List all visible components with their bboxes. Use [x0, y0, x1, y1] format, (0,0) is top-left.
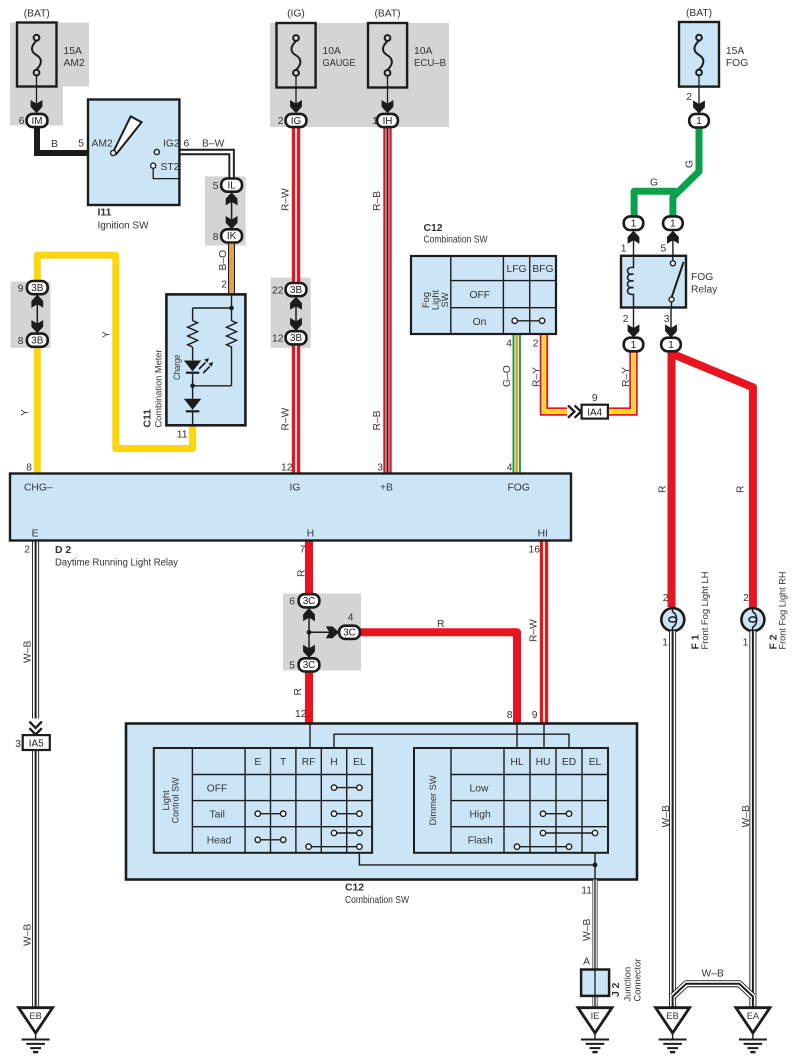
- wire W-B (IA5 to ground EB): [32, 750, 39, 1008]
- wire Y (combination meter pin 11 to 3B): [37, 255, 192, 448]
- svg-text:W–B: W–B: [741, 805, 752, 827]
- svg-text:Fog: Fog: [421, 292, 431, 308]
- svg-text:FOG: FOG: [508, 483, 530, 494]
- svg-text:9: 9: [592, 393, 598, 404]
- combination meter C11: [143, 294, 246, 427]
- svg-text:AM2: AM2: [64, 58, 85, 69]
- svg-text:8: 8: [26, 463, 32, 474]
- svg-text:ED: ED: [562, 757, 576, 768]
- ground EA: [736, 1008, 770, 1052]
- wire R-Y (fog light SW pin 2 to IA4): [544, 334, 567, 412]
- svg-text:Relay: Relay: [691, 285, 718, 296]
- LED charge indicator: [184, 361, 201, 372]
- svg-text:R–Y: R–Y: [532, 367, 543, 387]
- dimmer SW table: [414, 748, 608, 853]
- svg-text:1: 1: [631, 219, 637, 230]
- fuse 10A GAUGE: [277, 9, 356, 106]
- svg-text:FOG: FOG: [726, 58, 748, 69]
- svg-text:5: 5: [78, 139, 84, 150]
- svg-text:H: H: [330, 757, 337, 768]
- svg-text:Low: Low: [470, 783, 489, 794]
- connector 1 (relay pin 3): [661, 338, 681, 352]
- svg-text:Combination SW: Combination SW: [424, 235, 488, 246]
- wire R (3C to C12 pin 12): [305, 671, 313, 723]
- svg-text:10A: 10A: [414, 46, 432, 57]
- LC contacts Head row E-T: [260, 839, 281, 841]
- svg-text:H: H: [307, 529, 314, 540]
- fuse 15A AM2: [17, 9, 85, 106]
- wire B (thick black from IM to ignition SW): [37, 127, 89, 154]
- internal wire pin12 to RF: [309, 724, 311, 749]
- fuse block background gray (GAUGE / ECU-B): [270, 23, 449, 127]
- svg-text:1: 1: [662, 638, 668, 649]
- wire Y (3B to D2 pin 8): [34, 347, 41, 475]
- FOG relay: [621, 256, 718, 308]
- connector 2 IG: [278, 100, 307, 127]
- connector 1 IH: [372, 100, 398, 127]
- svg-text:B–W: B–W: [202, 139, 225, 150]
- wire W-B (D2 pin 2 to IA5): [32, 540, 39, 718]
- svg-text:8: 8: [213, 232, 219, 243]
- relay switch: [672, 256, 674, 261]
- svg-text:Flash: Flash: [468, 836, 493, 847]
- svg-text:3: 3: [664, 314, 670, 325]
- DRL relay D2: [10, 474, 571, 541]
- svg-text:W–B: W–B: [661, 805, 672, 827]
- connector 3 IA5: [15, 722, 50, 750]
- svg-text:10A: 10A: [323, 46, 341, 57]
- svg-text:8: 8: [507, 710, 513, 721]
- svg-text:2: 2: [221, 280, 227, 291]
- internal wire pin8 to HL: [516, 724, 518, 749]
- svg-text:IG2: IG2: [163, 139, 180, 150]
- connector pair arrows 3C: [308, 612, 310, 654]
- svg-text:R: R: [658, 486, 669, 493]
- svg-text:IG: IG: [290, 483, 301, 494]
- junction connector J2: [581, 959, 642, 1002]
- svg-text:3B: 3B: [31, 336, 43, 347]
- svg-text:W–B: W–B: [23, 924, 34, 946]
- wire R (branch to F2): [672, 354, 753, 608]
- svg-text:5: 5: [289, 661, 295, 672]
- internal wire pin9 to HU: [543, 724, 545, 749]
- svg-text:C12: C12: [424, 223, 443, 234]
- svg-text:OFF: OFF: [470, 290, 491, 301]
- svg-text:HL: HL: [510, 757, 523, 768]
- svg-text:3B: 3B: [290, 333, 302, 344]
- svg-text:Front Fog Light LH: Front Fog Light LH: [700, 572, 710, 650]
- svg-text:5: 5: [213, 181, 219, 192]
- relay coil: [628, 256, 634, 308]
- connector 1 (below FOG fuse): [689, 100, 709, 127]
- resistor (right, C11): [227, 308, 237, 386]
- svg-text:Light: Light: [161, 790, 171, 811]
- svg-text:W–B: W–B: [582, 919, 593, 941]
- svg-text:Light: Light: [431, 290, 441, 311]
- LC contacts Head row H-EL: [336, 832, 358, 834]
- connector 22 3B: [272, 283, 306, 297]
- svg-text:Y: Y: [20, 409, 31, 416]
- front fog light F2: [741, 608, 764, 631]
- connector 8 IK: [213, 229, 242, 243]
- svg-text:High: High: [470, 809, 491, 820]
- fog light SW C12 (upper): [411, 256, 556, 334]
- svg-text:OFF: OFF: [207, 783, 228, 794]
- svg-text:R–W: R–W: [529, 619, 540, 642]
- wire W-B (C12 pin 11 to J2): [593, 880, 598, 1008]
- svg-text:1: 1: [743, 638, 749, 649]
- svg-text:+B: +B: [380, 483, 393, 494]
- svg-text:T: T: [280, 757, 287, 768]
- wire R-W (IG fuse to 3B): [292, 127, 300, 283]
- svg-text:RF: RF: [302, 757, 316, 768]
- svg-text:6: 6: [184, 139, 190, 150]
- ground EB (left): [19, 1008, 53, 1052]
- svg-text:R: R: [437, 619, 444, 630]
- svg-text:16: 16: [529, 545, 541, 556]
- svg-text:R: R: [736, 486, 747, 493]
- svg-text:12: 12: [272, 334, 284, 345]
- svg-text:11: 11: [177, 430, 188, 441]
- dimmer contacts Flash row HL-ED: [519, 846, 567, 848]
- svg-text:(IG): (IG): [287, 9, 305, 20]
- svg-text:EL: EL: [589, 757, 602, 768]
- svg-text:7: 7: [300, 545, 306, 556]
- wire W-B (F1 to ground EB): [669, 631, 676, 1008]
- svg-text:2: 2: [663, 593, 669, 604]
- svg-text:Tail: Tail: [210, 809, 225, 820]
- svg-text:12: 12: [295, 709, 307, 720]
- dimmer contacts High row HU-ED: [545, 813, 567, 815]
- svg-text:3: 3: [15, 739, 21, 750]
- resistor (left, C11): [188, 321, 198, 347]
- svg-text:1: 1: [621, 244, 627, 255]
- svg-text:IL: IL: [227, 180, 236, 191]
- svg-text:4: 4: [506, 339, 512, 350]
- connector 1 (relay pin 1): [624, 216, 644, 230]
- ground EB (right): [656, 1008, 690, 1052]
- svg-text:HU: HU: [536, 757, 551, 768]
- combination SW C12 (lower, main box): [126, 724, 637, 880]
- connector 6 3C: [289, 594, 319, 607]
- wire R (3C pin 4 to C12 pin 8): [360, 632, 517, 724]
- svg-text:B–O: B–O: [218, 250, 229, 271]
- connector 5 IL: [213, 179, 242, 193]
- svg-text:Ignition SW: Ignition SW: [98, 221, 149, 232]
- svg-text:3C: 3C: [343, 628, 356, 639]
- svg-text:A: A: [583, 957, 590, 968]
- svg-text:EA: EA: [747, 1011, 760, 1021]
- connector 12 3B: [272, 331, 306, 344]
- svg-text:Y: Y: [102, 331, 113, 338]
- svg-text:AM2: AM2: [92, 139, 113, 150]
- svg-text:IE: IE: [591, 1011, 600, 1021]
- svg-text:R: R: [293, 688, 304, 695]
- svg-text:HI: HI: [538, 529, 548, 540]
- fuse 15A FOG: [679, 8, 748, 105]
- internal link EL to pin 11: [359, 853, 595, 865]
- svg-text:9: 9: [532, 710, 538, 721]
- svg-text:J 2: J 2: [611, 982, 622, 997]
- svg-text:4: 4: [507, 463, 513, 474]
- connector 6 IM: [19, 100, 48, 127]
- svg-text:G–O: G–O: [502, 365, 513, 387]
- svg-text:IA5: IA5: [29, 738, 44, 749]
- svg-text:IM: IM: [32, 116, 43, 127]
- svg-text:2: 2: [686, 92, 692, 103]
- LC contacts Tail row H-EL: [336, 813, 358, 815]
- LC contacts OFF row H-EL: [336, 787, 358, 789]
- wire W-B (bridge between F1 and F2 grounds): [673, 984, 753, 997]
- svg-text:R–W: R–W: [280, 188, 291, 211]
- svg-text:R–W: R–W: [280, 407, 291, 430]
- svg-text:SW: SW: [440, 292, 450, 307]
- svg-text:R–B: R–B: [372, 410, 383, 430]
- svg-text:FOG: FOG: [691, 272, 713, 283]
- svg-text:6: 6: [289, 597, 295, 608]
- svg-text:G: G: [650, 178, 658, 189]
- connector pair arrows 3B (R-W): [295, 301, 297, 327]
- wire B-O (IK to combination meter pin 2): [228, 242, 235, 296]
- svg-text:IH: IH: [383, 116, 393, 127]
- svg-text:IK: IK: [227, 231, 237, 242]
- svg-text:ECU–B: ECU–B: [414, 58, 446, 69]
- svg-text:R–Y: R–Y: [621, 367, 632, 387]
- svg-text:LFG: LFG: [506, 264, 526, 275]
- svg-text:4: 4: [348, 613, 354, 624]
- svg-text:1: 1: [631, 340, 637, 351]
- ignition switch I11: [78, 100, 189, 232]
- wire B-W (IG2 to IL): [179, 152, 231, 180]
- svg-text:1: 1: [668, 340, 674, 351]
- svg-text:12: 12: [281, 463, 293, 474]
- svg-text:8: 8: [18, 336, 24, 347]
- svg-text:BFG: BFG: [532, 264, 553, 275]
- svg-text:2: 2: [743, 593, 749, 604]
- wire G (FOG fuse to relay pins 1 and 5): [673, 128, 699, 217]
- svg-text:W–B: W–B: [702, 969, 724, 980]
- svg-text:3C: 3C: [303, 596, 316, 607]
- svg-text:3B: 3B: [290, 285, 302, 296]
- fog SW contacts (On row): [517, 320, 541, 322]
- svg-text:Charge: Charge: [172, 355, 182, 381]
- svg-text:G: G: [685, 160, 696, 168]
- svg-text:6: 6: [19, 116, 25, 127]
- svg-text:9: 9: [18, 284, 24, 295]
- relay bottom pins to connectors: [633, 308, 635, 331]
- svg-text:R: R: [297, 570, 308, 577]
- svg-text:(BAT): (BAT): [686, 8, 712, 19]
- svg-text:22: 22: [272, 286, 284, 297]
- svg-text:11: 11: [581, 886, 592, 897]
- svg-text:Daytime Running Light Relay: Daytime Running Light Relay: [55, 558, 179, 569]
- arrows into relay top connectors: [633, 236, 635, 256]
- svg-text:I11: I11: [98, 208, 112, 219]
- svg-text:ST2: ST2: [161, 162, 180, 173]
- svg-text:EB: EB: [666, 1011, 678, 1021]
- svg-text:3B: 3B: [31, 283, 43, 294]
- svg-text:IA4: IA4: [587, 407, 602, 418]
- svg-text:B: B: [51, 139, 58, 150]
- svg-text:C12: C12: [345, 883, 364, 894]
- connector 4 3C: [339, 613, 360, 639]
- wire R-Y (IA4 to fog relay pin 2): [608, 351, 634, 412]
- svg-text:Combination Meter: Combination Meter: [154, 350, 164, 428]
- connector 1 (relay pin 5): [663, 216, 683, 230]
- svg-text:(BAT): (BAT): [374, 9, 400, 20]
- connector 5 3C: [289, 658, 319, 671]
- connector 8 3B: [18, 334, 48, 347]
- LC contacts Head row RF-EL: [311, 846, 358, 848]
- svg-text:CHG–: CHG–: [24, 483, 53, 494]
- svg-text:D 2: D 2: [55, 545, 71, 556]
- light control SW table: [154, 748, 372, 853]
- wire R-B (ECU-B fuse to D2 pin 3): [383, 127, 391, 475]
- fuse 10A ECU-B: [368, 9, 446, 106]
- front fog light F1: [661, 608, 684, 631]
- connector block gray (3C): [283, 594, 361, 671]
- svg-text:1: 1: [372, 116, 378, 127]
- svg-text:E: E: [32, 529, 39, 540]
- svg-text:Control SW: Control SW: [171, 777, 181, 823]
- dimmer contacts Flash row HU-EL: [545, 832, 593, 834]
- svg-text:2: 2: [533, 339, 539, 350]
- svg-text:GAUGE: GAUGE: [323, 58, 356, 69]
- connector block gray (3B R-W): [271, 278, 311, 348]
- svg-text:2: 2: [24, 545, 30, 556]
- svg-text:EL: EL: [353, 757, 366, 768]
- svg-text:Combination SW: Combination SW: [345, 895, 409, 906]
- svg-text:Connector: Connector: [633, 959, 643, 1002]
- fuse block background gray (AM2): [10, 23, 89, 87]
- diode (C11): [192, 386, 194, 399]
- wire R-W (3B to D2 pin 12): [292, 344, 300, 474]
- connector block gray (IL/IK): [205, 176, 246, 245]
- svg-text:R–B: R–B: [372, 191, 383, 211]
- wire R (relay pin 3 to F1): [668, 351, 676, 607]
- connector block gray (3B yellow): [11, 282, 51, 348]
- wire W-B (F2 to ground EA): [749, 631, 756, 1008]
- svg-text:On: On: [473, 317, 487, 328]
- svg-text:1: 1: [696, 116, 702, 127]
- svg-text:Front Fog Light RH: Front Fog Light RH: [777, 572, 787, 650]
- svg-text:1: 1: [670, 219, 676, 230]
- svg-text:EB: EB: [29, 1011, 41, 1021]
- svg-text:Head: Head: [207, 836, 232, 847]
- svg-text:IG: IG: [291, 116, 301, 127]
- svg-text:Junction: Junction: [623, 967, 633, 1002]
- svg-text:5: 5: [660, 244, 666, 255]
- connector 9 3B: [18, 281, 48, 295]
- ground IE: [578, 1008, 612, 1052]
- svg-text:(BAT): (BAT): [24, 9, 50, 20]
- svg-text:W–B: W–B: [23, 641, 34, 663]
- svg-text:3C: 3C: [303, 660, 316, 671]
- svg-text:E: E: [254, 757, 261, 768]
- connector 1 (relay pin 2): [624, 338, 644, 352]
- LC contacts Tail row E-T: [260, 813, 281, 815]
- svg-text:15A: 15A: [64, 46, 82, 57]
- wire R (D2 pin 7 to 3C): [305, 541, 313, 595]
- connector pair arrows 3B: [36, 299, 38, 329]
- wire G-O (fog light SW pin 4 to D2 pin 4): [513, 334, 521, 475]
- svg-text:Dimmer SW: Dimmer SW: [428, 775, 438, 825]
- connector IA4: [568, 393, 608, 419]
- svg-text:15A: 15A: [726, 46, 744, 57]
- connector pair arrows IL/IK: [231, 197, 233, 225]
- internal link H to ED: [334, 734, 569, 748]
- svg-text:2: 2: [278, 116, 284, 127]
- svg-text:C11: C11: [143, 409, 154, 428]
- wire R-W (D2 pin 16 to C12 pin 9): [540, 541, 548, 724]
- svg-text:2: 2: [623, 314, 629, 325]
- svg-text:3: 3: [377, 463, 383, 474]
